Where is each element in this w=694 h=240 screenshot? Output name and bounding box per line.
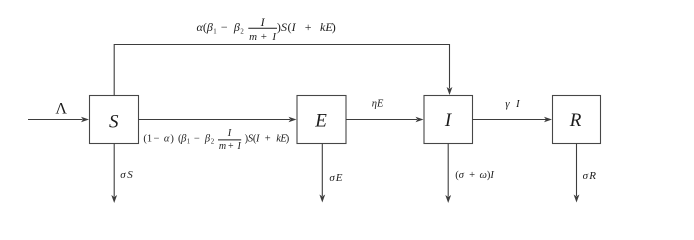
label R — [569, 110, 582, 131]
svg-text:): ) — [170, 133, 174, 144]
input arrow into S — [28, 117, 89, 122]
label etaE — [372, 99, 384, 110]
svg-text:m: m — [219, 141, 226, 152]
svg-text:I: I — [227, 128, 232, 139]
svg-text:2: 2 — [240, 29, 244, 36]
svg-text:−: − — [154, 133, 160, 144]
label gammaI — [505, 98, 521, 110]
svg-text:+: + — [469, 170, 475, 181]
svg-text:+: + — [305, 20, 312, 34]
svg-text:+: + — [261, 31, 267, 43]
wire E to I — [346, 117, 424, 122]
svg-text:α: α — [164, 133, 170, 144]
top formula alpha(beta1 - beta2 I/(m+I))S(I+kE) — [197, 15, 336, 43]
svg-text:+: + — [265, 133, 271, 144]
svg-text:+: + — [228, 141, 234, 152]
down arrow from R — [574, 144, 580, 203]
svg-text:m: m — [249, 31, 257, 43]
svg-text:γ: γ — [505, 98, 510, 110]
svg-text:−: − — [221, 20, 228, 34]
box S — [90, 96, 139, 144]
svg-text:I: I — [255, 133, 260, 144]
label I — [444, 110, 453, 131]
label sigmaS — [120, 169, 134, 181]
label Lambda — [55, 101, 67, 118]
wire I to R — [473, 117, 553, 122]
svg-text:1: 1 — [187, 138, 190, 145]
svg-text:β: β — [206, 20, 213, 34]
label sigmaR — [583, 170, 598, 182]
svg-text:ηE: ηE — [372, 99, 384, 110]
svg-text:S: S — [109, 112, 119, 133]
label E — [314, 111, 327, 132]
lower formula (1-alpha)(beta1 - beta2 I/(m+I))S(I+kE) — [143, 128, 289, 152]
feedback wire S top to I top — [114, 45, 452, 96]
box E — [297, 96, 346, 144]
label (sigma+omega)I — [455, 170, 494, 181]
svg-text:Λ: Λ — [55, 101, 67, 118]
svg-text:E: E — [314, 111, 327, 132]
down arrow from S — [111, 144, 117, 204]
down arrow from E — [319, 144, 325, 203]
svg-text:R: R — [569, 110, 582, 131]
svg-text:σR: σR — [583, 170, 598, 182]
label S — [109, 112, 119, 133]
box R — [553, 96, 601, 144]
svg-text:1: 1 — [213, 28, 216, 35]
svg-text:(σ: (σ — [455, 170, 465, 181]
down arrow from I — [445, 144, 451, 204]
svg-text:S: S — [281, 20, 287, 34]
svg-text:−: − — [194, 133, 200, 144]
svg-text:β: β — [233, 20, 240, 34]
svg-text:σE: σE — [329, 172, 343, 184]
svg-text:2: 2 — [211, 139, 215, 146]
label sigmaE — [329, 172, 343, 184]
svg-text:(1: (1 — [143, 133, 152, 144]
wire S to E — [139, 117, 297, 122]
svg-text:I: I — [237, 141, 242, 152]
svg-text:σS: σS — [120, 169, 134, 181]
svg-text:ω)I: ω)I — [480, 170, 495, 181]
svg-text:): ) — [332, 20, 336, 34]
box I — [424, 96, 473, 144]
svg-text:): ) — [286, 133, 290, 144]
